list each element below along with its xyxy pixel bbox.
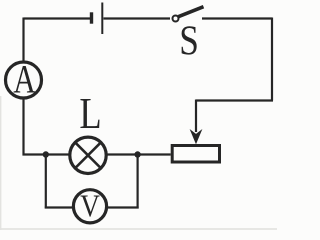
svg-text:V: V xyxy=(80,190,100,224)
wire ammeter to left corner vertical xyxy=(22,99,24,156)
wire switch to top-right corner xyxy=(202,17,272,19)
lamp X cross xyxy=(76,143,100,167)
rheostat slider arrowhead xyxy=(191,131,201,144)
battery cell xyxy=(92,3,103,35)
voltmeter V xyxy=(73,190,106,223)
wire voltmeter branch right vertical xyxy=(137,154,139,209)
switch lever xyxy=(178,7,203,17)
wire left corner to lamp xyxy=(23,153,70,155)
switch pivot xyxy=(173,16,179,22)
label L (lamp) xyxy=(79,89,101,138)
wire voltmeter branch left vertical xyxy=(45,155,47,209)
svg-text:S: S xyxy=(179,17,199,64)
scan artifact bottom edge xyxy=(0,228,277,229)
wire lamp to right node xyxy=(106,153,138,155)
svg-text:L: L xyxy=(79,89,101,138)
node left junction xyxy=(43,151,49,157)
wire right vertical xyxy=(271,18,273,101)
battery long plate (positive) xyxy=(101,3,103,35)
ammeter A circle xyxy=(6,62,42,98)
node right junction xyxy=(134,151,140,157)
wire right horizontal to slider xyxy=(196,99,273,101)
lamp L xyxy=(70,137,106,173)
lamp circle xyxy=(70,137,106,173)
wire top-left horizontal xyxy=(24,17,91,19)
wire slider vertical xyxy=(195,100,197,133)
wire left vertical upper xyxy=(22,18,24,62)
rheostat R body xyxy=(172,146,219,163)
wire voltmeter branch bottom right xyxy=(107,206,139,208)
scan artifact left edge xyxy=(0,96,1,230)
label S (switch) xyxy=(179,17,199,64)
wire voltmeter branch bottom left xyxy=(45,206,73,208)
label A (ammeter) xyxy=(13,57,36,102)
switch S xyxy=(173,7,204,22)
label V (voltmeter) xyxy=(80,190,100,224)
battery short plate (negative) xyxy=(90,12,93,23)
wire lamp right node to rheostat xyxy=(138,153,171,155)
wire battery to switch xyxy=(104,17,171,19)
